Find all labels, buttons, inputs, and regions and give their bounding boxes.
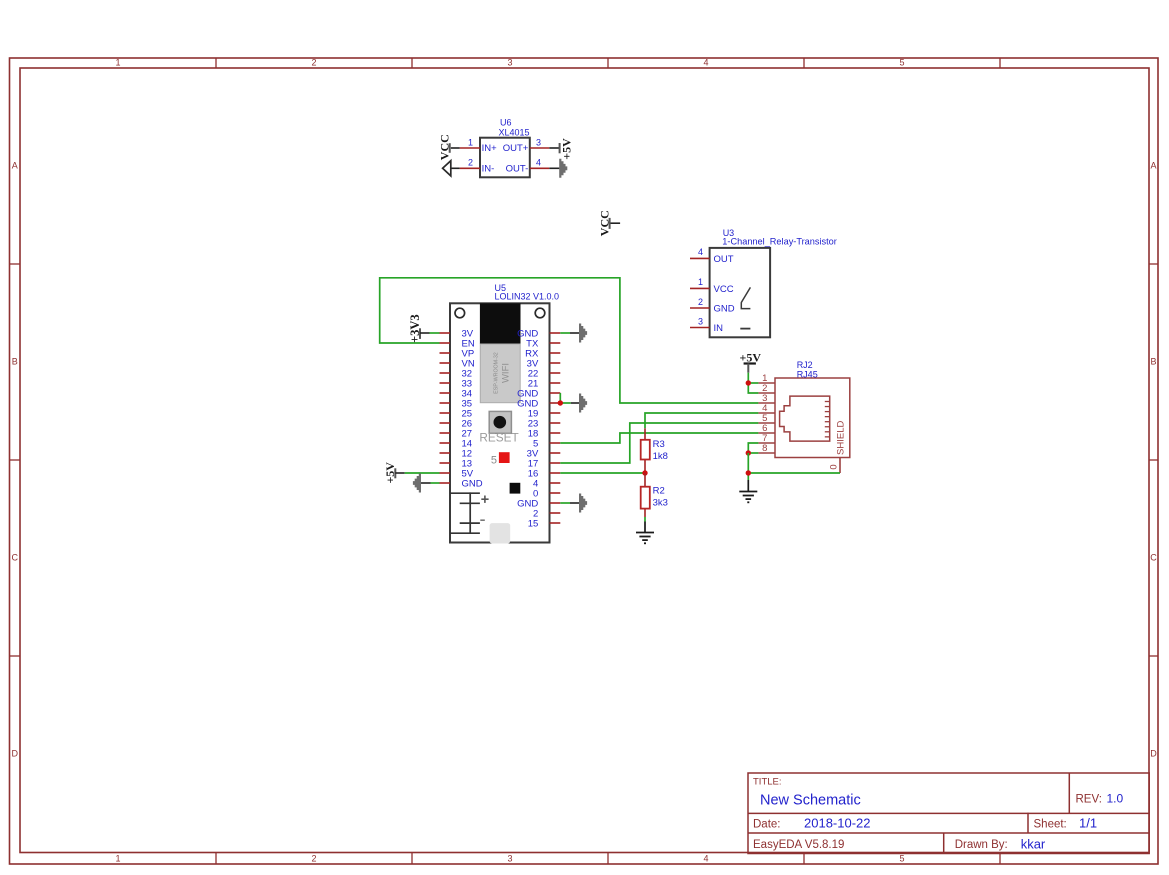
svg-text:2: 2	[468, 158, 473, 168]
svg-text:4: 4	[703, 854, 708, 864]
resistor R3	[641, 428, 650, 473]
U5 left pin 13	[440, 458, 473, 469]
svg-text:D: D	[1150, 749, 1157, 759]
U5 left pin GND	[440, 478, 483, 489]
wire R2 bottom to ground	[644, 517, 646, 522]
junction dot RJ45 pin8	[746, 450, 751, 455]
RJ45 pin 8	[758, 443, 775, 454]
U5 reference label	[495, 283, 507, 293]
svg-text:0: 0	[828, 464, 839, 469]
svg-text:LOLIN32 V1.0.0: LOLIN32 V1.0.0	[495, 292, 560, 302]
relay module U3 box	[710, 248, 771, 337]
RESET text	[479, 430, 518, 444]
U5 right pin GND	[517, 388, 560, 399]
wire U5 pin17 to RJ45 pin5	[560, 423, 758, 463]
U5 right pin 3V	[527, 358, 561, 369]
U3 pin 2 GND	[690, 297, 735, 315]
U5 right pin 3V	[527, 448, 561, 459]
U5 left pin 26	[440, 418, 473, 429]
U3 pin 1 VCC	[690, 277, 734, 295]
svg-text:VCC: VCC	[714, 284, 734, 295]
RJ45 jack symbol	[780, 396, 830, 441]
R2 value label 3k3	[653, 498, 668, 509]
buck converter U6 XL4015 box	[480, 138, 530, 178]
U5 right pin GND	[517, 328, 560, 339]
wire +5V to 5V pin	[405, 472, 440, 474]
REV field	[1076, 792, 1124, 806]
ESP32 module U5 LOLIN32 box	[450, 303, 550, 542]
svg-text:3: 3	[698, 316, 703, 326]
U5 left pin 33	[440, 378, 473, 389]
U5 right pin 5	[533, 438, 560, 449]
U5 left pin 27	[440, 428, 473, 439]
svg-text:A: A	[12, 161, 18, 171]
U5 RESET button	[489, 411, 511, 433]
U5 right pin 23	[528, 418, 561, 429]
EasyEDA version field	[753, 839, 844, 851]
svg-text:OUT+: OUT+	[503, 143, 529, 154]
title block TITLE label	[753, 777, 782, 788]
ground arrow at U5 right GND pin row8	[571, 394, 587, 413]
ground arrow at U5 right GND pin row1	[570, 324, 587, 343]
U5 mounting hole left	[455, 308, 465, 318]
svg-text:B: B	[1150, 357, 1156, 367]
wire shield junction to shield pin	[748, 472, 840, 474]
svg-text:RJ45: RJ45	[797, 369, 818, 379]
svg-text:2: 2	[311, 58, 316, 68]
svg-text:GND: GND	[462, 478, 483, 489]
RJ2 value label RJ45	[797, 369, 818, 379]
U3 reference label	[723, 228, 735, 238]
svg-text:RESET: RESET	[479, 430, 518, 444]
svg-text:WIFI: WIFI	[501, 363, 512, 383]
border row ticks and letters	[10, 161, 1159, 759]
U5 right pin 16	[528, 468, 561, 479]
U3 relay contact symbol	[741, 287, 750, 308]
wire U5 pin16 to R3 bottom	[560, 472, 645, 474]
Date field	[753, 816, 871, 831]
svg-text:R2: R2	[653, 486, 665, 497]
U5 right pin TX	[526, 338, 560, 349]
U5 left pin 3V	[440, 328, 474, 339]
U5 led 5 red square	[491, 452, 510, 466]
junction dot RJ45 pin1	[746, 380, 751, 385]
svg-text:15: 15	[528, 518, 539, 529]
U6 pin 2 IN-	[460, 158, 495, 175]
+5V power flag at U6 pin 3	[549, 138, 573, 160]
svg-text:1: 1	[468, 137, 473, 147]
U6 pin 3 OUT+	[503, 137, 550, 154]
svg-text:XL4015: XL4015	[499, 128, 530, 138]
svg-text:1-Channel_Relay-Transistor: 1-Channel_Relay-Transistor	[722, 237, 837, 247]
title text New Schematic	[760, 793, 861, 809]
svg-text:+3V3: +3V3	[408, 314, 422, 343]
svg-text:3: 3	[507, 58, 512, 68]
wire right GND rows 7-8 jog	[560, 393, 571, 403]
svg-text:4: 4	[703, 58, 708, 68]
U5 left pin 14	[440, 438, 473, 449]
svg-text:8: 8	[762, 443, 767, 454]
floating VCC net flag	[597, 210, 620, 236]
wire junction to RJ45 pin1	[748, 382, 758, 384]
svg-text:4: 4	[536, 158, 541, 168]
U5 right pin RX	[525, 348, 560, 359]
svg-text:3: 3	[507, 854, 512, 864]
svg-text:5: 5	[899, 58, 904, 68]
svg-text:New Schematic: New Schematic	[760, 793, 861, 809]
svg-text:IN+: IN+	[482, 143, 498, 154]
ground arrow at U5 left GND pin	[413, 474, 431, 493]
svg-text:D: D	[11, 749, 18, 759]
svg-text:C: C	[1150, 553, 1157, 563]
svg-text:2: 2	[698, 297, 703, 307]
R2 reference label	[653, 486, 665, 497]
svg-text:EasyEDA V5.8.19: EasyEDA V5.8.19	[753, 839, 844, 851]
+5V power flag at U5 5V pin	[383, 462, 405, 484]
U5 left pin 35	[440, 398, 473, 409]
svg-text:+5V: +5V	[383, 462, 397, 484]
svg-text:B: B	[12, 357, 18, 367]
U5 battery connector symbol	[450, 492, 489, 533]
U6 value label XL4015	[499, 128, 530, 138]
svg-text:Drawn By:: Drawn By:	[955, 839, 1008, 851]
svg-text:kkar: kkar	[1021, 837, 1046, 852]
svg-text:3k3: 3k3	[653, 498, 668, 509]
junction dot shield	[746, 470, 751, 475]
VCC power flag at U6 pin 1	[437, 134, 459, 160]
svg-text:5: 5	[491, 454, 497, 466]
U5 left pin 32	[440, 368, 473, 379]
U5 right pin GND	[517, 498, 560, 509]
wire right GND row1	[560, 332, 570, 334]
svg-text:IN: IN	[714, 323, 724, 334]
U6 reference label	[500, 118, 512, 128]
U5 right pin 0	[533, 488, 560, 499]
U5 left pin 34	[440, 388, 473, 399]
U5 usb connector grey block	[490, 523, 511, 543]
earth ground below RJ45	[739, 480, 757, 502]
svg-text:1: 1	[115, 854, 120, 864]
svg-text:SHIELD: SHIELD	[836, 421, 847, 455]
RJ45 SHIELD text	[836, 421, 847, 455]
svg-text:5: 5	[899, 854, 904, 864]
+3V3 power flag at U5 3V pin	[408, 314, 430, 343]
RJ45 connector RJ2 box	[775, 378, 850, 458]
svg-text:A: A	[1150, 161, 1156, 171]
U5 left pin 25	[440, 408, 473, 419]
U5 left pin VP	[440, 348, 475, 359]
svg-text:1/1: 1/1	[1079, 816, 1097, 831]
RJ45 pin 1	[758, 373, 775, 384]
border column ticks and numbers	[115, 58, 1000, 865]
U5 right pin 17	[528, 458, 561, 469]
+5V power flag above RJ45	[740, 350, 762, 372]
RJ45 pin 4	[758, 403, 775, 414]
U3 pin 4 OUT	[690, 247, 734, 265]
wire right GND row18	[560, 502, 570, 504]
svg-text:REV:: REV:	[1076, 794, 1102, 806]
U5 right pin GND	[517, 398, 560, 409]
U5 left pin 12	[440, 448, 473, 459]
title block	[748, 773, 1149, 854]
svg-text:1: 1	[698, 277, 703, 287]
U5 right pin 22	[528, 368, 561, 379]
wire +5V down to RJ45 pin1	[747, 373, 749, 383]
RJ45 pin 7	[758, 433, 775, 444]
R3 value label 1k8	[653, 451, 668, 462]
resistor R2	[641, 473, 650, 517]
RJ2 reference label	[797, 360, 813, 370]
earth ground below R2	[636, 522, 654, 544]
RJ45 pin 5	[758, 413, 775, 424]
svg-text:1.0: 1.0	[1107, 792, 1124, 806]
svg-text:3: 3	[536, 137, 541, 147]
svg-text:2018-10-22: 2018-10-22	[804, 816, 871, 831]
svg-text:Date:: Date:	[753, 819, 781, 831]
svg-text:U6: U6	[500, 118, 512, 128]
U5 antenna black block	[480, 303, 521, 344]
U5 right pin 19	[528, 408, 561, 419]
RJ45 pin 2	[758, 383, 775, 394]
wire ground to left GND pin	[431, 482, 440, 484]
power arrow flag at U6 pin 2	[443, 161, 460, 176]
wire U5 pin5 to RJ45 pin6	[560, 433, 758, 443]
svg-text:+5V: +5V	[740, 350, 762, 364]
U3 value label 1-Channel_Relay-Transistor	[722, 237, 837, 247]
Drawn By field	[955, 837, 1046, 852]
svg-text:IN-: IN-	[482, 164, 495, 175]
U5 right pin 18	[528, 428, 561, 439]
U5 right pin 21	[528, 378, 561, 389]
wire junction to RJ45 pin8	[748, 452, 758, 454]
svg-text:+5V: +5V	[560, 138, 574, 160]
svg-text:4: 4	[698, 247, 703, 257]
svg-text:2: 2	[311, 854, 316, 864]
U3 pin 3 IN	[690, 316, 723, 334]
R3 reference label	[653, 439, 665, 450]
svg-text:OUT: OUT	[714, 254, 734, 265]
RJ45 pin 3	[758, 393, 775, 404]
U3 coil dash symbol	[740, 328, 750, 330]
U5 ESP-WROOM-32 shield block	[480, 344, 520, 403]
wire +3V3 to 3V pin	[430, 332, 440, 334]
RJ45 pin 6	[758, 423, 775, 434]
wire junction down to RJ45 pin2	[748, 383, 758, 393]
svg-text:Sheet:: Sheet:	[1034, 819, 1067, 831]
svg-text:ESP-WROOM-32: ESP-WROOM-32	[493, 352, 499, 394]
svg-text:R3: R3	[653, 439, 665, 450]
U5 left pin 5V	[440, 468, 474, 479]
ground arrow at U6 pin 4	[549, 159, 567, 178]
U5 left pin VN	[440, 358, 475, 369]
U5 right pin 4	[533, 478, 560, 489]
svg-text:C: C	[11, 553, 18, 563]
U5 right pin 2	[533, 508, 560, 519]
RJ45 shield pin 0	[828, 458, 840, 474]
svg-text:1k8: 1k8	[653, 451, 668, 462]
U5 left pin EN	[440, 338, 475, 349]
svg-text:VCC: VCC	[597, 210, 611, 236]
svg-text:1: 1	[115, 58, 120, 68]
svg-text:TITLE:: TITLE:	[753, 777, 782, 788]
U5 mounting hole right	[535, 308, 545, 318]
Sheet field	[1034, 816, 1098, 831]
U5 small black square	[510, 483, 521, 494]
wire R3 top to RJ45 pin4	[645, 413, 758, 428]
svg-text:GND: GND	[714, 303, 735, 314]
U5 value label LOLIN32 V1.0.0	[495, 292, 560, 302]
wire RJ45 pin7 down to pin8 junction	[748, 443, 758, 453]
U6 pin 4 OUT-	[506, 158, 550, 175]
U5 right pin 15	[528, 518, 561, 529]
junction dot GND row8	[558, 400, 563, 405]
svg-text:VCC: VCC	[437, 134, 451, 160]
ground arrow at U5 right GND pin row18	[570, 494, 587, 513]
wire pin8 junction down to shield junction	[747, 453, 749, 480]
svg-text:OUT-: OUT-	[506, 164, 529, 175]
U6 pin 1 IN+	[460, 137, 497, 154]
wire EN to RJ45 pin3	[380, 278, 759, 403]
junction dot R3 bottom	[642, 470, 647, 475]
